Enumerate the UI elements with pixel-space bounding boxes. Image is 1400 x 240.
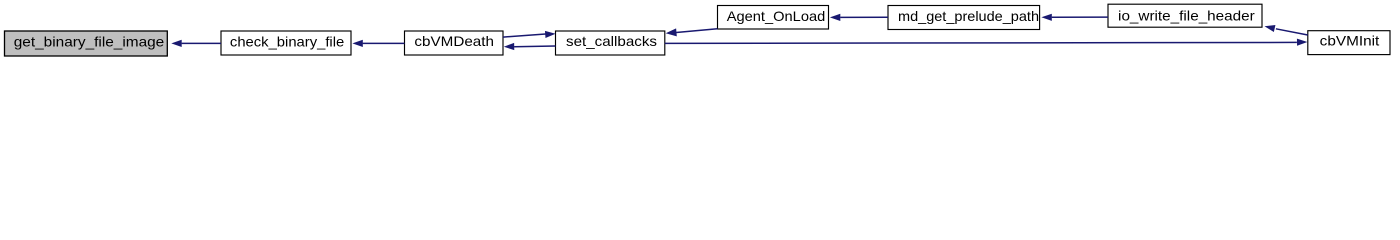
svg-text:io_write_file_header: io_write_file_header xyxy=(1118,7,1255,23)
edge Agent_OnLoad -> set_callbacks xyxy=(665,28,717,37)
node get_binary_file_image (current, gray) xyxy=(5,31,168,56)
node cbVMDeath xyxy=(405,31,504,55)
edge check_binary_file -> get_binary_file_image xyxy=(171,40,221,47)
svg-text:set_callbacks: set_callbacks xyxy=(566,33,657,49)
edge set_callbacks -> cbVMInit (long) xyxy=(665,38,1308,45)
svg-text:Agent_OnLoad: Agent_OnLoad xyxy=(727,8,826,24)
node check_binary_file xyxy=(221,31,351,55)
svg-text:md_get_prelude_path: md_get_prelude_path xyxy=(898,8,1039,24)
svg-text:get_binary_file_image: get_binary_file_image xyxy=(14,33,165,49)
node Agent_OnLoad xyxy=(718,6,829,30)
svg-text:check_binary_file: check_binary_file xyxy=(230,33,345,49)
edge cbVMDeath -> check_binary_file xyxy=(352,40,404,47)
svg-text:cbVMInit: cbVMInit xyxy=(1320,33,1380,49)
edge io_write_file_header -> md_get_prelude_path xyxy=(1041,14,1108,21)
node io_write_file_header xyxy=(1108,4,1262,27)
edge set_callbacks -> cbVMDeath (lower) xyxy=(504,43,556,50)
node md_get_prelude_path xyxy=(888,6,1040,30)
node set_callbacks xyxy=(556,31,665,55)
edge md_get_prelude_path -> Agent_OnLoad xyxy=(830,14,888,21)
node cbVMInit xyxy=(1308,31,1390,55)
edge cbVMInit -> io_write_file_header xyxy=(1264,23,1308,35)
svg-text:cbVMDeath: cbVMDeath xyxy=(414,33,494,49)
edge cbVMDeath -> set_callbacks (upper) xyxy=(503,30,556,38)
